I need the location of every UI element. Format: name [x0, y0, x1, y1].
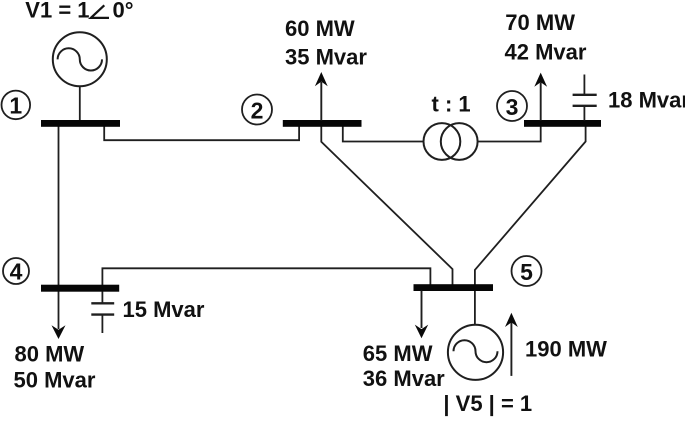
svg-text:70 MW: 70 MW: [505, 10, 575, 35]
svg-text:| V5 | = 1: | V5 | = 1: [443, 391, 532, 416]
svg-text:1: 1: [9, 93, 22, 119]
svg-text:50 Mvar: 50 Mvar: [14, 368, 96, 393]
svg-text:36 Mvar: 36 Mvar: [363, 366, 445, 391]
svg-text:V1 = 1: V1 = 1: [25, 0, 89, 23]
svg-text:65 MW: 65 MW: [363, 341, 433, 366]
svg-text:190 MW: 190 MW: [525, 337, 607, 362]
svg-text:4: 4: [10, 259, 23, 285]
svg-text:2: 2: [251, 97, 264, 123]
svg-text:42 Mvar: 42 Mvar: [505, 40, 587, 65]
svg-text:5: 5: [520, 259, 533, 285]
svg-text:18 Mvar: 18 Mvar: [608, 88, 685, 113]
svg-text:35 Mvar: 35 Mvar: [285, 45, 367, 70]
svg-text:80 MW: 80 MW: [15, 342, 85, 367]
svg-text:15 Mvar: 15 Mvar: [123, 297, 205, 322]
svg-text:0°: 0°: [113, 0, 134, 23]
svg-text:t : 1: t : 1: [432, 92, 471, 117]
svg-text:3: 3: [506, 94, 519, 120]
svg-text:60 MW: 60 MW: [285, 16, 355, 41]
